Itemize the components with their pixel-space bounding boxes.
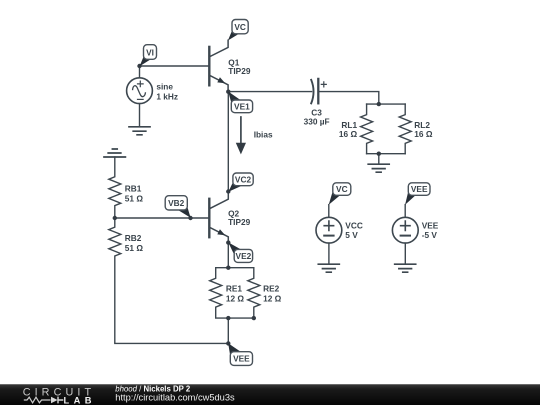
label VE1 box	[231, 100, 252, 113]
pointer VE2	[228, 242, 241, 255]
node name labels	[144, 20, 431, 366]
svg-text:VEE: VEE	[233, 354, 250, 364]
svg-text:VEE: VEE	[411, 184, 428, 194]
svg-text:VE2: VE2	[236, 251, 252, 261]
wire VI node to Q1 base	[140, 65, 210, 67]
transistor Q2 emitter arrow	[217, 229, 226, 238]
label VEE source box	[408, 183, 430, 196]
wire C3 to RL pair	[318, 92, 379, 105]
svg-text:RE1: RE1	[226, 284, 243, 294]
label VC box	[232, 20, 248, 34]
resistor RE2	[248, 268, 260, 318]
Ibias arrow line	[240, 117, 242, 143]
label VE2 box	[234, 249, 252, 262]
pointer VEE bottom	[228, 343, 241, 357]
svg-text:VE1: VE1	[234, 101, 250, 111]
svg-text:VC: VC	[234, 22, 246, 32]
transistor Q1 bar	[208, 47, 210, 85]
node RL bottom	[377, 152, 381, 156]
logo resistor zigzag	[24, 397, 51, 403]
wire RL bottom to ground	[378, 154, 380, 164]
node RE bottom right	[252, 316, 256, 320]
resistor RE1	[210, 268, 222, 318]
node RE top	[226, 266, 230, 270]
source VEE plus sign	[401, 221, 410, 230]
svg-text:VEE: VEE	[422, 220, 439, 230]
Ibias arrowhead	[236, 143, 246, 155]
wire RB junction to Q2 base	[115, 217, 210, 219]
transistor Q1 emitter arrow	[217, 77, 226, 86]
label VC source box	[333, 183, 351, 196]
svg-text:TIP29: TIP29	[228, 217, 251, 227]
svg-text:VC: VC	[336, 184, 348, 194]
ground below VEE source	[395, 264, 416, 272]
node RL top	[377, 102, 381, 106]
wire VEE label to VEE source	[404, 205, 406, 218]
ground below VCC	[318, 264, 339, 272]
wire VE1 node right to C3	[228, 91, 311, 93]
svg-text:LAB: LAB	[64, 395, 96, 405]
wire VEE source to ground	[404, 243, 406, 264]
label pointers	[140, 30, 416, 358]
svg-text:RB1: RB1	[125, 183, 142, 193]
RE parallel bottom bar	[216, 317, 254, 319]
pointer VC	[228, 30, 239, 41]
source V1 sine wave	[133, 86, 146, 97]
transistor Q1 emitter lead	[210, 75, 229, 91]
svg-text:12 Ω: 12 Ω	[226, 294, 245, 304]
wire VEE rail bottom	[115, 342, 229, 344]
resistor RB1	[109, 157, 121, 217]
source VEE minus sign	[401, 235, 410, 237]
RL parallel top bar	[367, 103, 406, 105]
source VCC minus sign	[324, 235, 333, 237]
wire RE bottom to VEE rail	[227, 318, 229, 343]
svg-text:5 V: 5 V	[345, 230, 358, 240]
capacitor C3 straight plate	[317, 79, 319, 103]
wire V1 bottom to ground	[139, 104, 141, 127]
resistor RB2	[109, 218, 121, 342]
svg-text:sine: sine	[156, 82, 173, 92]
svg-text:VI: VI	[146, 47, 154, 57]
node VC2	[226, 189, 230, 193]
node VI	[137, 64, 141, 68]
label VI box	[144, 45, 157, 60]
transistor Q2 bar	[208, 199, 210, 237]
ground below RL pair	[368, 164, 389, 172]
svg-text:Ibias: Ibias	[254, 130, 273, 140]
svg-text:VC2: VC2	[235, 174, 252, 184]
transistor Q2 emitter lead	[210, 227, 229, 242]
pointer VE1	[228, 92, 241, 105]
svg-text:http://circuitlab.com/cw5du3s: http://circuitlab.com/cw5du3s	[115, 392, 235, 402]
node VEE junction	[226, 341, 230, 345]
RE parallel top bar	[216, 267, 254, 269]
svg-text:RB2: RB2	[125, 233, 142, 243]
source V1 plus sign	[138, 81, 144, 87]
source V1 sine circle	[127, 78, 153, 104]
node VE1	[226, 90, 230, 94]
svg-text:330 µF: 330 µF	[304, 117, 330, 127]
footer bar	[0, 384, 540, 405]
node VE2	[226, 240, 230, 244]
source VCC circle	[316, 217, 342, 243]
pointer VI	[140, 56, 151, 67]
capacitor C3 curved plate	[311, 80, 313, 104]
svg-text:51 Ω: 51 Ω	[125, 243, 144, 253]
RL parallel bottom bar	[367, 153, 406, 155]
wire VCC to ground	[328, 243, 330, 264]
source VCC plus sign	[324, 221, 333, 230]
label VC2 box	[233, 173, 253, 186]
label VEE bottom box	[230, 352, 252, 366]
logo diode	[51, 397, 58, 403]
svg-text:51 Ω: 51 Ω	[125, 193, 144, 203]
wire VE1 node down to Q2 collector	[227, 92, 229, 192]
svg-text:TIP29: TIP29	[228, 66, 251, 76]
pointer VEE source	[405, 190, 415, 205]
label VB2 box	[165, 196, 187, 210]
source V1 minus sign	[138, 98, 144, 100]
svg-text:RE2: RE2	[263, 284, 280, 294]
transistor Q1 collector lead	[210, 40, 229, 57]
node VB2	[188, 216, 192, 220]
capacitor C3 plus sign	[321, 82, 326, 87]
resistor RL2	[399, 104, 411, 154]
transistor Q2 collector lead	[210, 192, 229, 209]
wire Q2 emitter to RE pair	[227, 243, 229, 268]
wire VC label to VCC source	[328, 205, 330, 218]
svg-text:VB2: VB2	[168, 198, 185, 208]
source VEE circle	[392, 217, 418, 243]
component value texts	[125, 57, 439, 303]
ground below V1	[129, 127, 150, 135]
resistor RL1	[361, 104, 373, 154]
pointer VC2	[228, 181, 242, 191]
svg-text:16 Ω: 16 Ω	[339, 129, 358, 139]
svg-text:VCC: VCC	[345, 220, 363, 230]
svg-text:12 Ω: 12 Ω	[263, 294, 282, 304]
pointer VB2	[178, 205, 191, 217]
pointer VC source	[329, 190, 340, 205]
svg-text:16 Ω: 16 Ω	[414, 129, 433, 139]
svg-text:1 kHz: 1 kHz	[156, 92, 178, 102]
svg-text:-5 V: -5 V	[422, 230, 438, 240]
node RE bottom	[226, 316, 230, 320]
ground above RB1 (inverted)	[104, 149, 125, 157]
node RB junction	[113, 216, 117, 220]
wire VI node to source V1 top	[139, 66, 141, 78]
